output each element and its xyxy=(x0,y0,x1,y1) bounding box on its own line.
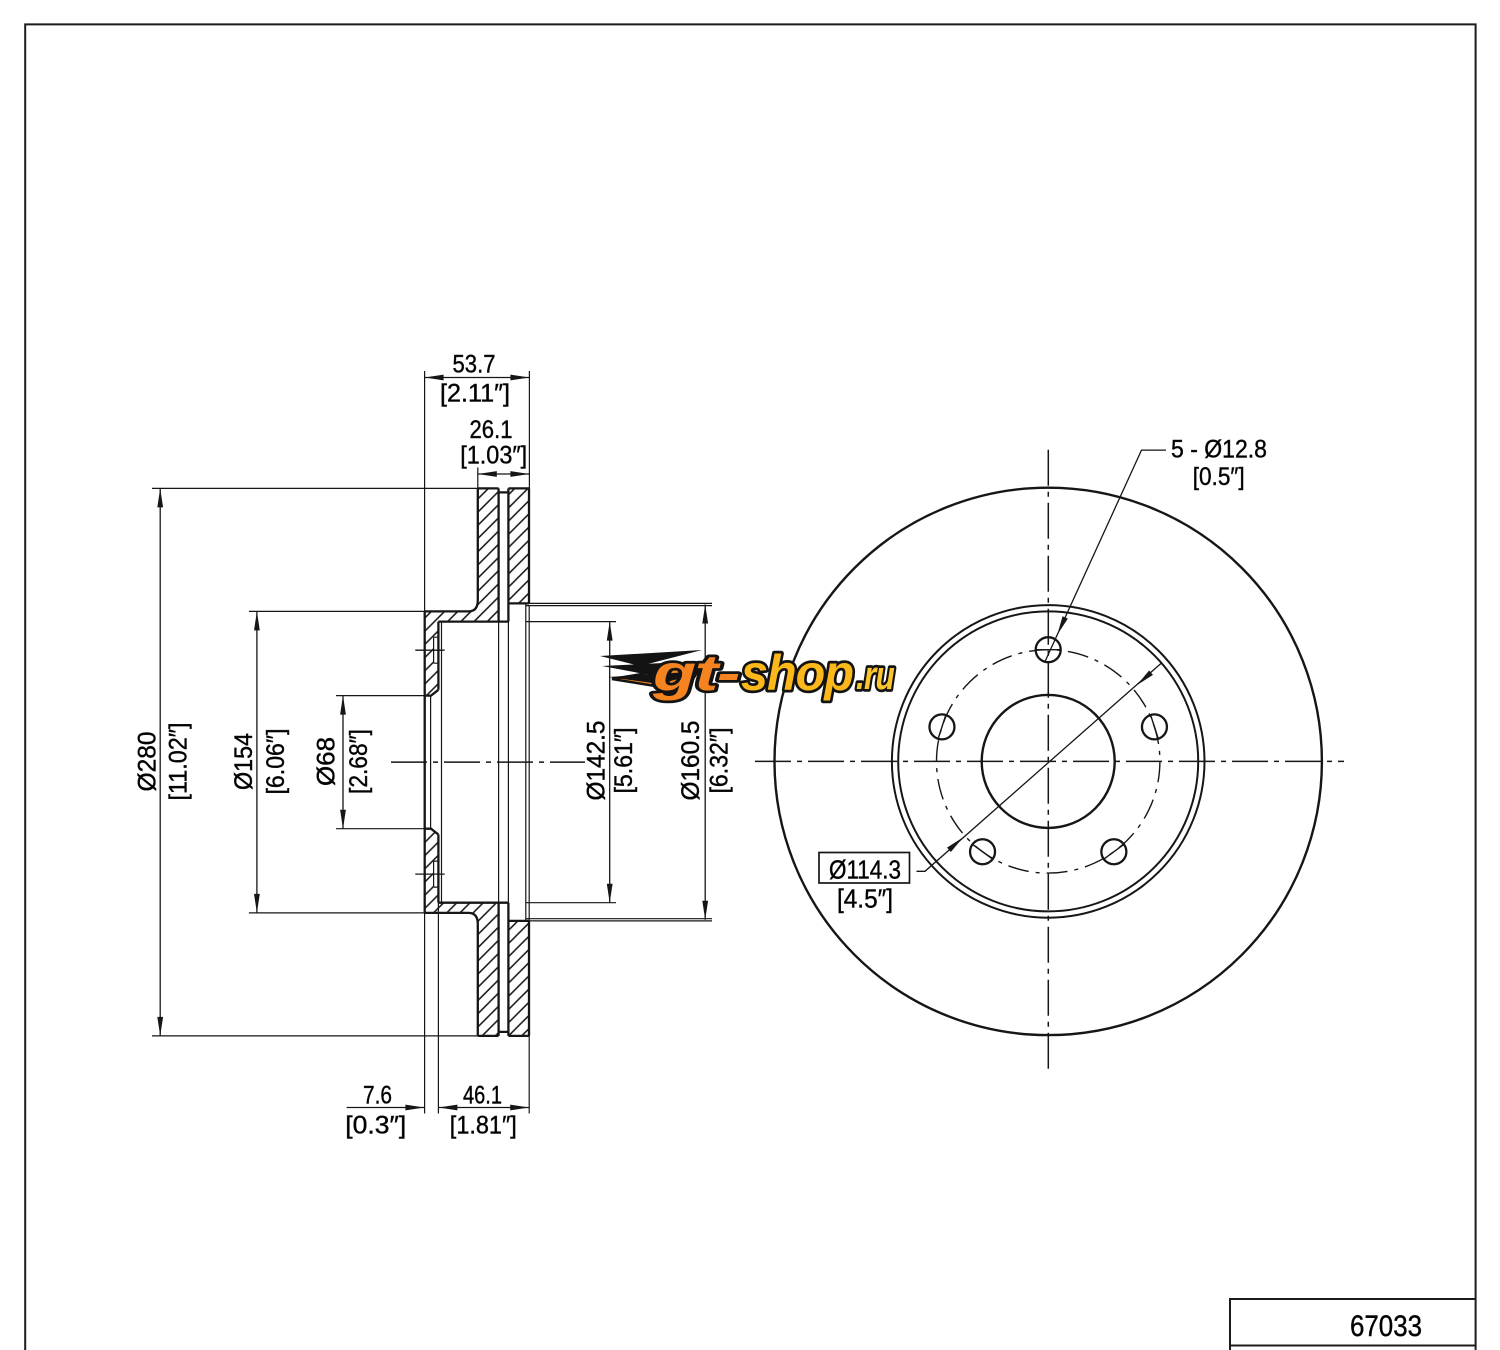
dimension 46.1 [1.81"] xyxy=(438,1082,529,1140)
svg-text:[5.61″]: [5.61″] xyxy=(610,728,638,794)
hub flange circle Ø154 xyxy=(898,611,1198,911)
dimension 53.7 [2.11"] xyxy=(425,351,530,408)
svg-text:Ø154: Ø154 xyxy=(230,733,258,790)
flange inner face xyxy=(437,622,439,903)
svg-text:.ru: .ru xyxy=(856,654,894,698)
bolt hole bottom-right xyxy=(1101,839,1126,864)
title block xyxy=(1230,1299,1476,1350)
svg-text:[1.03″]: [1.03″] xyxy=(460,442,527,470)
center bore circle Ø68 xyxy=(982,695,1115,828)
svg-text:Ø114.3: Ø114.3 xyxy=(829,855,901,885)
hub flange circle Ø160.5 xyxy=(892,605,1205,918)
dimension Ø68 [2.68"] xyxy=(313,696,374,829)
inboard cheek corner step xyxy=(525,603,527,921)
svg-text:[2.11″]: [2.11″] xyxy=(440,380,510,408)
inboard cheek inner faces xyxy=(508,488,529,1036)
dimension Ø142.5 [5.61"] xyxy=(583,622,639,903)
speed lines xyxy=(600,650,702,666)
section hatch: upper-left flange+roof+outboard cheek xyxy=(425,488,499,695)
bolt hole right xyxy=(1142,714,1167,739)
extension lines top (53.7 / 26.1) xyxy=(425,371,530,611)
dimension Ø160.5 [6.32"] xyxy=(677,605,734,920)
section outline: rotor outer diameter edges xyxy=(425,488,529,1036)
svg-text:[4.5″]: [4.5″] xyxy=(837,884,893,914)
vent slot walls upper xyxy=(499,488,509,621)
speed flame wedge xyxy=(612,664,702,691)
extension lines bottom (7.6 / 46.1) xyxy=(425,903,530,1114)
front view vertical centerline xyxy=(1047,450,1049,1074)
bolt hole left xyxy=(929,714,954,739)
svg-text:gt-: gt- xyxy=(652,645,740,701)
dimension 26.1 [1.03"] xyxy=(460,416,529,477)
svg-text:[2.68″]: [2.68″] xyxy=(345,729,373,794)
svg-text:53.7: 53.7 xyxy=(453,351,496,379)
extension lines horizontal left (Ø280 / Ø154 / Ø68) xyxy=(152,488,478,1036)
front view horizontal centerline xyxy=(755,760,1344,762)
rotor outer circle Ø280 xyxy=(774,488,1321,1035)
bolt hole centermark upper xyxy=(415,649,444,651)
svg-text:7.6: 7.6 xyxy=(363,1082,392,1110)
dimension Ø280 [11.02"] xyxy=(134,488,193,1036)
bolt hole void in lower flange xyxy=(434,861,439,887)
svg-text:[6.32″]: [6.32″] xyxy=(706,728,734,794)
svg-text:[0.5″]: [0.5″] xyxy=(1193,463,1245,491)
mounting face xyxy=(424,611,426,913)
section interior silhouette lines xyxy=(425,606,530,919)
outboard cheek outer face xyxy=(425,488,478,1036)
dimension 7.6 [0.3"] xyxy=(345,1082,424,1140)
extension lines horizontal right (Ø142.5 / Ø160.5) xyxy=(526,603,712,921)
bolt hole centermark lower xyxy=(415,873,444,875)
svg-text:Ø68: Ø68 xyxy=(313,737,341,786)
dimension Ø154 [6.06"] xyxy=(230,611,290,913)
leader Ø114.3 with frame box xyxy=(819,663,1161,913)
svg-text:Ø160.5: Ø160.5 xyxy=(677,721,705,801)
svg-text:[0.3″]: [0.3″] xyxy=(345,1112,406,1140)
hub bore surfaces xyxy=(425,690,439,835)
bolt hole void in upper flange xyxy=(434,637,439,663)
svg-text:[1.81″]: [1.81″] xyxy=(450,1112,517,1140)
bolt circle Ø114.3 dash-dot xyxy=(936,650,1159,873)
watermark gt-shop.ru logo xyxy=(600,645,894,701)
section hatch: lower-right inboard cheek with vane bridge xyxy=(508,921,529,1036)
section hatch: lower-left flange+roof+outboard cheek xyxy=(425,829,499,1036)
svg-text:Ø142.5: Ø142.5 xyxy=(583,721,611,801)
svg-text:Ø280: Ø280 xyxy=(134,732,162,792)
svg-text:[11.02″]: [11.02″] xyxy=(165,723,193,801)
svg-text:67033: 67033 xyxy=(1350,1310,1422,1343)
hat roof underside xyxy=(438,622,508,903)
section axis centerline xyxy=(391,761,585,763)
svg-text:[6.06″]: [6.06″] xyxy=(262,729,290,795)
section hatch: upper-right inboard cheek with vane bridge xyxy=(508,488,529,603)
svg-text:26.1: 26.1 xyxy=(470,416,513,444)
leader 5 - Ø12.8 xyxy=(1045,436,1267,663)
svg-text:46.1: 46.1 xyxy=(463,1082,502,1110)
svg-text:shop: shop xyxy=(741,645,853,701)
svg-text:5 - Ø12.8: 5 - Ø12.8 xyxy=(1171,436,1267,464)
vent slot walls lower xyxy=(499,903,509,1036)
bolt hole bottom-left xyxy=(970,839,995,864)
bolt hole top xyxy=(1035,637,1061,662)
